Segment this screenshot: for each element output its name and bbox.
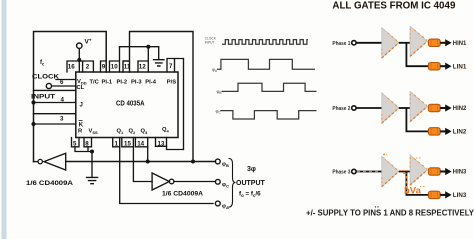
pin 10 box + riser xyxy=(110,47,120,72)
svg-text:16: 16 xyxy=(68,64,75,71)
svg-text:ALL GATES FROM IC 4049: ALL GATES FROM IC 4049 xyxy=(332,1,456,12)
wire V+ stem xyxy=(78,49,80,62)
svg-text:PI-2: PI-2 xyxy=(117,80,128,86)
wire U1a to U1b xyxy=(399,42,410,44)
bead HIN2 xyxy=(428,104,440,111)
svg-text:8: 8 xyxy=(85,141,89,148)
bead HIN1 xyxy=(428,39,440,46)
svg-text:7: 7 xyxy=(169,63,173,70)
terminal phiB xyxy=(215,159,220,164)
svg-text:Q1: Q1 xyxy=(117,129,125,135)
orange dashes on phase3 wire xyxy=(357,171,380,173)
pin 3 box line xyxy=(34,113,76,115)
svg-text:5: 5 xyxy=(73,141,77,148)
node K junction xyxy=(31,122,35,126)
wire U2a to U2b xyxy=(399,107,410,109)
pin 8 box xyxy=(84,138,92,147)
wire branch to LIN2 xyxy=(406,108,428,131)
node J junction xyxy=(31,100,35,104)
schematic text labels xyxy=(26,38,266,210)
buffer U1b (4049) xyxy=(410,26,427,56)
ground G2 xyxy=(87,177,98,183)
arrow HIN3 xyxy=(440,171,446,173)
svg-text:CLOCK: CLOCK xyxy=(32,74,59,81)
wire K pin3 xyxy=(34,123,76,125)
bead LIN3 xyxy=(428,191,440,198)
terminal phiC xyxy=(215,179,220,184)
node V+ junction xyxy=(77,58,81,62)
pin 12 box + riser xyxy=(138,47,148,72)
IC U1 CD4035A body xyxy=(76,72,178,138)
svg-text:6: 6 xyxy=(60,79,64,86)
buffer U3a (4049) xyxy=(382,156,399,186)
wire line A (Q3 bus to phiB) xyxy=(66,161,216,163)
svg-text:CD 4035A: CD 4035A xyxy=(116,99,145,108)
left page-edge blue strip xyxy=(2,0,7,239)
arrow LIN3 xyxy=(440,194,446,196)
svg-text:2: 2 xyxy=(86,64,90,71)
svg-text:J: J xyxy=(80,103,83,109)
pin 6 box lines xyxy=(34,80,76,91)
svg-text:11: 11 xyxy=(124,64,131,71)
waveform phase B xyxy=(222,83,317,91)
wire phase 2 to buffer xyxy=(356,107,382,109)
clock input terminal xyxy=(46,83,51,88)
svg-text:Phase 3: Phase 3 xyxy=(332,170,350,176)
svg-text:φB: φB xyxy=(222,162,229,168)
arrow LIN2 xyxy=(440,130,446,132)
pin 11 box + riser to box2 xyxy=(123,32,193,162)
wire phase 1 to buffer xyxy=(356,42,382,44)
svg-text:Q2: Q2 xyxy=(129,129,137,135)
svg-text:9: 9 xyxy=(102,64,106,71)
wire phase 3 to buffer xyxy=(356,171,382,173)
inverter U3 1/6 CD4009A (points right) xyxy=(152,173,169,190)
svg-text:PI-3: PI-3 xyxy=(131,80,142,86)
wire Q3 stub xyxy=(147,138,149,162)
node R-Vss junction xyxy=(90,150,94,154)
pin 15 box xyxy=(122,138,134,147)
svg-text:T/C: T/C xyxy=(90,80,100,86)
svg-text:Q3: Q3 xyxy=(141,129,149,135)
wire U3 out to phiC xyxy=(174,181,216,183)
svg-text:12: 12 xyxy=(139,64,146,71)
svg-text:Phase 1: Phase 1 xyxy=(332,41,350,47)
svg-text:LIN3: LIN3 xyxy=(453,192,467,199)
svg-text:fc: fc xyxy=(40,60,45,67)
arrow HIN2 xyxy=(440,107,446,109)
svg-text:LIN1: LIN1 xyxy=(453,63,467,70)
wire branch to LIN1 xyxy=(406,43,428,66)
svg-text:P/S: P/S xyxy=(167,80,176,86)
bead LIN1 xyxy=(428,63,440,70)
svg-text:HIN3: HIN3 xyxy=(453,169,467,176)
svg-text:INPUT: INPUT xyxy=(205,41,215,45)
waveform phase C xyxy=(220,111,316,119)
pin 2 box xyxy=(79,61,93,72)
terminal phiA xyxy=(215,201,220,206)
svg-text:1/6 CD4009A: 1/6 CD4009A xyxy=(162,192,204,198)
wire Q1 to phiA xyxy=(120,138,213,204)
svg-text:14: 14 xyxy=(137,141,144,148)
svg-text:VSS: VSS xyxy=(89,129,99,135)
ground G1 xyxy=(154,60,165,66)
pin 13 box xyxy=(156,138,167,147)
buffer U2b (4049) xyxy=(410,91,427,121)
svg-text:INPUT: INPUT xyxy=(31,93,55,100)
waveform clock xyxy=(222,40,308,45)
svg-text:10: 10 xyxy=(111,64,118,71)
buffer U2a (4049) xyxy=(382,93,399,123)
node Q3 on line A xyxy=(146,160,150,164)
svg-text:φA: φA xyxy=(222,204,229,210)
svg-text:LIN2: LIN2 xyxy=(453,129,467,136)
svg-text:1: 1 xyxy=(115,141,119,148)
arrow LIN1 xyxy=(440,65,446,67)
waveform phase A xyxy=(217,59,315,69)
svg-text:15: 15 xyxy=(124,141,131,148)
arrow HIN1 xyxy=(440,42,446,44)
bead LIN2 xyxy=(428,128,440,135)
svg-text:HIN1: HIN1 xyxy=(453,40,467,47)
svg-text:Phase 2: Phase 2 xyxy=(332,106,350,112)
bead HIN3 xyxy=(428,168,440,175)
pin 7 box + feedback wire to pin 13 xyxy=(167,59,184,150)
wire U3a to U3b xyxy=(399,171,410,173)
node box2 on line A xyxy=(191,160,195,164)
wire inner bus pins 10-12-gnd xyxy=(120,47,159,60)
wire J pin4 xyxy=(34,102,76,104)
orange marks phase3 row xyxy=(383,155,408,174)
svg-text:13: 13 xyxy=(158,140,165,147)
svg-text:φC: φC xyxy=(222,182,229,188)
wire Q2 to inverter U3 xyxy=(133,138,152,182)
pin 9 box xyxy=(101,61,107,72)
svg-text:3φ: 3φ xyxy=(247,166,256,173)
buffer U1a (4049) xyxy=(382,28,399,58)
V+ terminal xyxy=(77,43,82,48)
svg-text:3: 3 xyxy=(60,116,64,123)
svg-text:+/- SUPPLY TO PINS 1 AND 8 RES: +/- SUPPLY TO PINS 1 AND 8 RESPECTIVELY xyxy=(306,209,474,218)
svg-text:PI-4: PI-4 xyxy=(145,80,156,86)
wire clock to pin 6 xyxy=(52,85,76,87)
svg-text:bVa: bVa xyxy=(404,186,422,197)
svg-text:OUTPUT: OUTPUT xyxy=(236,180,266,187)
svg-text:CL: CL xyxy=(77,85,85,91)
buffer U3b (4049) xyxy=(410,155,427,185)
pin 5 box xyxy=(72,138,80,147)
wire branch to LIN3 xyxy=(406,172,428,195)
svg-text:4: 4 xyxy=(61,97,65,104)
waveforms xyxy=(217,40,317,119)
bottom supply note xyxy=(375,206,376,207)
wire R/Vss to ground xyxy=(75,147,92,177)
svg-text:PI-1: PI-1 xyxy=(102,80,113,86)
svg-text:HIN2: HIN2 xyxy=(453,105,467,112)
wire box1: left rail + top edge + drop to pin 9 xyxy=(34,32,107,162)
inverter U2 1/6 CD4009A (points left) xyxy=(34,161,38,163)
svg-text:1/6 CD4009A: 1/6 CD4009A xyxy=(26,181,74,187)
svg-text:Q4: Q4 xyxy=(162,127,170,133)
brace xyxy=(229,159,236,208)
pin 16 box xyxy=(67,61,79,72)
pin 14 box xyxy=(135,138,147,147)
node pin12 riser xyxy=(146,45,150,49)
pin 1 box xyxy=(113,138,120,147)
